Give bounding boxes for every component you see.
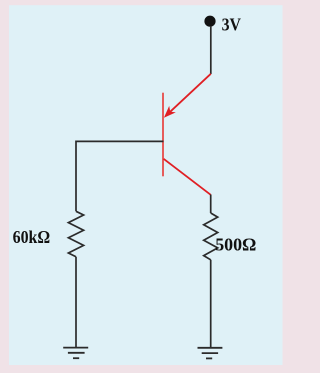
svg-text:500Ω: 500Ω: [215, 235, 256, 255]
svg-text:3V: 3V: [222, 15, 241, 35]
svg-text:60kΩ: 60kΩ: [13, 227, 51, 247]
